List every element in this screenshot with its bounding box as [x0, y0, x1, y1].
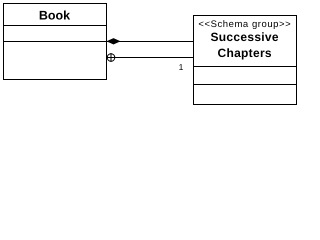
svg-text:<<Schema group>>: <<Schema group>>: [198, 19, 291, 30]
Successive Chapters divider 1: [194, 66, 297, 68]
svg-text:Book: Book: [39, 8, 70, 22]
class box Book: [4, 4, 107, 80]
class box Successive Chapters: [194, 16, 297, 105]
circled plus symbol at Book end: [107, 54, 115, 62]
svg-text:Successive: Successive: [211, 30, 279, 44]
Book attributes divider: [4, 41, 107, 43]
composition diamond at Book end: [107, 38, 120, 44]
svg-text:Chapters: Chapters: [217, 46, 271, 60]
circled plus horizontal bar: [107, 57, 116, 59]
association wire 1 (composition): [106, 41, 194, 43]
circled plus vertical bar: [110, 53, 112, 62]
Book title divider: [4, 25, 107, 27]
association wire 2: [106, 57, 194, 59]
Successive Chapters divider 2: [194, 84, 297, 86]
svg-text:1: 1: [179, 62, 184, 72]
